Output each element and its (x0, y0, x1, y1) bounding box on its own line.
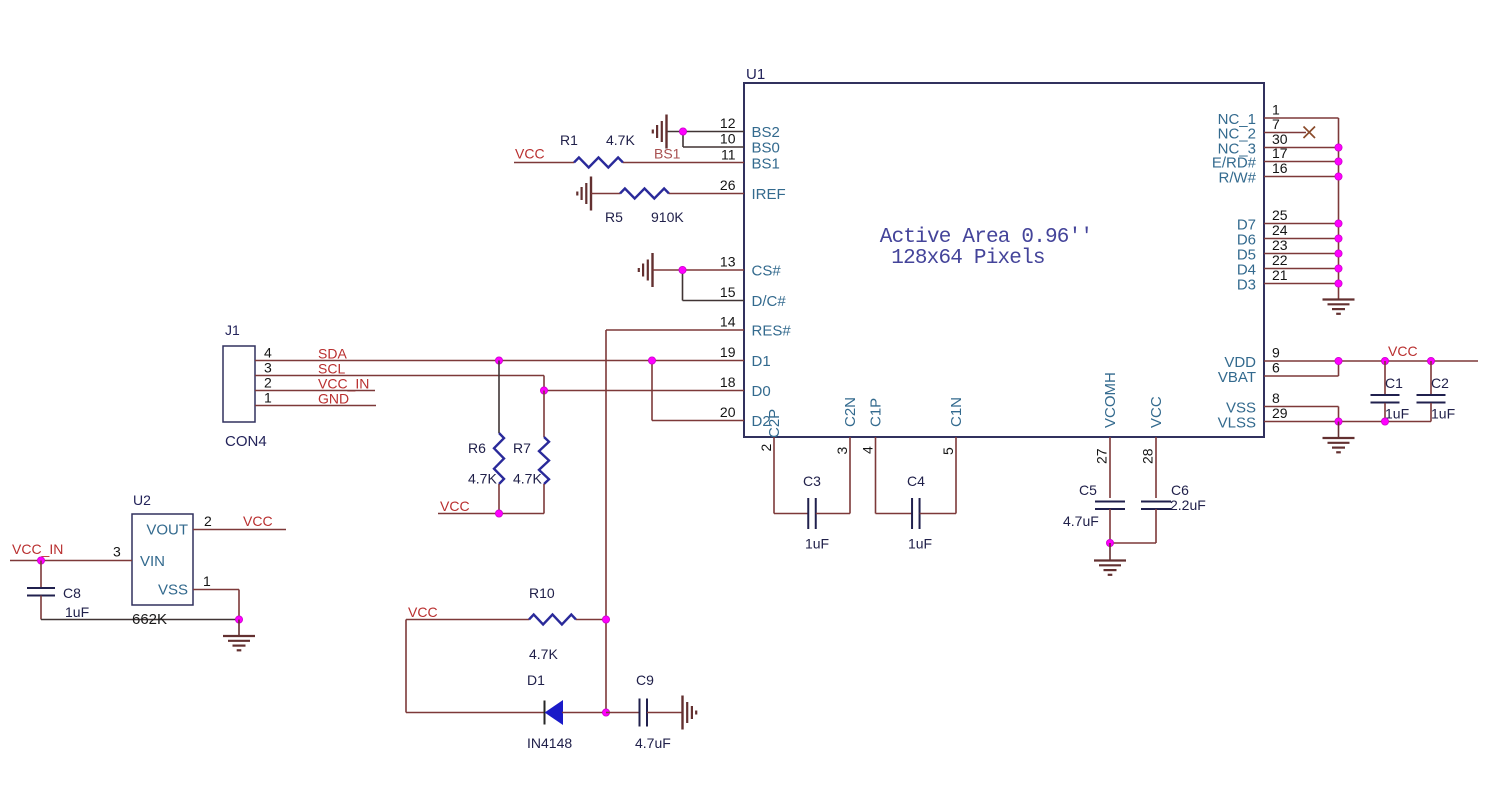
capacitor C4 (911, 498, 913, 529)
wire U2 VSS pin 1 (193, 589, 239, 591)
node junction VDD/VBAT (1335, 357, 1342, 364)
wire ground to R5 (591, 193, 620, 195)
wire VCOMH pin 27 drop (1109, 437, 1111, 498)
svg-text:BS0: BS0 (752, 140, 780, 157)
capacitor C1 (1371, 394, 1400, 396)
svg-text:VCOMH: VCOMH (1102, 372, 1119, 428)
wire VCC to R10 (406, 619, 529, 621)
wire SDA pin4 to D1 pin 19 (255, 360, 744, 362)
wire VCC pin 28 drop (1155, 437, 1157, 498)
svg-text:4.7K: 4.7K (606, 132, 635, 148)
svg-text:VCC: VCC (243, 513, 273, 529)
svg-text:VCC_IN: VCC_IN (318, 376, 369, 392)
capacitor C8 (27, 587, 55, 589)
svg-text:128x64 Pixels: 128x64 Pixels (891, 247, 1044, 270)
capacitor C2 (1417, 394, 1446, 396)
wire GND stub pin1 (255, 405, 376, 407)
wire C5 ground stem (1109, 543, 1111, 560)
svg-text:BS2: BS2 (752, 124, 780, 141)
svg-text:11: 11 (721, 147, 736, 163)
svg-text:4.7K: 4.7K (529, 646, 558, 662)
wire C6 to C5 junction (1110, 542, 1156, 544)
svg-text:910K: 910K (651, 209, 684, 225)
wire C2P to C3 (774, 513, 808, 515)
svg-text:24: 24 (1272, 222, 1288, 238)
node junction D6/bus (1335, 235, 1342, 242)
svg-text:VIN: VIN (140, 553, 165, 570)
svg-text:3: 3 (113, 544, 121, 560)
svg-text:R7: R7 (513, 440, 531, 456)
wire VCC_IN stub pin2 (255, 390, 375, 392)
svg-text:C2: C2 (1431, 375, 1449, 391)
capacitor C5 (1095, 500, 1125, 502)
node junction VDD/C2 (1427, 357, 1434, 364)
svg-text:CS#: CS# (752, 263, 782, 280)
svg-text:4.7uF: 4.7uF (635, 735, 671, 751)
svg-text:15: 15 (720, 284, 736, 300)
svg-text:1uF: 1uF (805, 536, 829, 552)
svg-text:R/W#: R/W# (1219, 170, 1257, 187)
wire R/W# pin 16 (1264, 176, 1339, 178)
diode D1 triangle (546, 701, 563, 724)
svg-text:VSS: VSS (158, 582, 188, 599)
svg-text:25: 25 (1272, 207, 1288, 223)
wire D7 pin 25 (1264, 223, 1339, 225)
svg-text:IN4148: IN4148 (527, 735, 572, 751)
svg-text:C5: C5 (1079, 482, 1097, 498)
svg-text:D1: D1 (752, 353, 771, 370)
wire diode to RES# junction (562, 712, 606, 714)
svg-text:4.7K: 4.7K (513, 471, 542, 487)
svg-text:28: 28 (1140, 448, 1156, 464)
wire R1 to BS1 pin 11 (623, 162, 744, 164)
svg-text:13: 13 (720, 254, 736, 270)
svg-text:26: 26 (720, 177, 736, 193)
wire NC_1 pin 1 (1264, 117, 1339, 119)
svg-text:4: 4 (264, 345, 272, 361)
IC U1 OLED driver box (744, 83, 1264, 437)
node junction D4/bus (1335, 265, 1342, 272)
node junction D7/bus (1335, 220, 1342, 227)
resistor R7 (539, 437, 549, 484)
svg-text:BS1: BS1 (654, 146, 681, 162)
svg-text:D0: D0 (752, 383, 771, 400)
wire BS0 pin 10 (683, 146, 744, 148)
node junction VLSS/C1 (1381, 418, 1388, 425)
svg-text:VBAT: VBAT (1218, 369, 1256, 386)
wire E/RD# pin 17 (1264, 161, 1339, 163)
svg-text:5: 5 (940, 447, 956, 455)
wire D/C# branch vertical (682, 270, 684, 301)
capacitor C3 (807, 498, 809, 529)
resistor R6 (494, 433, 504, 484)
svg-text:22: 22 (1272, 252, 1288, 268)
wire D2 branch to pin 20 (652, 420, 744, 422)
svg-text:1uF: 1uF (65, 604, 89, 620)
ground at NC bus (1323, 298, 1355, 300)
resistor R1 (574, 158, 623, 168)
svg-text:U2: U2 (133, 492, 151, 508)
node junction U2 VSS/C8 (235, 616, 242, 623)
svg-text:VCC: VCC (408, 604, 438, 620)
capacitor C2 top lead (1430, 361, 1432, 395)
wire VSS pin 8 (1264, 406, 1339, 408)
svg-text:C6: C6 (1171, 482, 1189, 498)
svg-text:18: 18 (720, 374, 736, 390)
svg-text:21: 21 (1272, 267, 1288, 283)
wire R10 to RES# junction (576, 619, 606, 621)
svg-text:3: 3 (264, 360, 272, 376)
svg-text:4.7K: 4.7K (468, 471, 497, 487)
svg-text:C3: C3 (803, 473, 821, 489)
wire C8 to U2 ground rail (41, 619, 239, 621)
wire NC_3 pin 30 (1264, 147, 1339, 149)
node junction VSS/VLSS (1335, 418, 1342, 425)
svg-text:C2P: C2P (766, 409, 783, 438)
wire R7 bottom (543, 484, 545, 514)
wire C1P pin 4 drop (875, 437, 877, 514)
svg-text:VCC: VCC (1388, 343, 1418, 359)
svg-text:C2N: C2N (842, 397, 859, 427)
wire ground stub to BS2 junction (667, 131, 684, 133)
diode D1 cathode bar (544, 701, 546, 725)
svg-text:R6: R6 (468, 440, 486, 456)
wire C4 to C1N (920, 513, 956, 515)
wire to C9 (606, 712, 640, 714)
wire RES# vertical (605, 330, 607, 713)
wire R6 bottom (498, 484, 500, 514)
capacitor C8 top lead (40, 561, 42, 589)
wire C5 to ground junction (1109, 509, 1111, 543)
wire C9 to ground (647, 712, 683, 714)
wire C1N pin 5 drop (955, 437, 957, 514)
wire SCL drop to D0 net (543, 376, 545, 391)
wire D/C# pin 15 (683, 300, 745, 302)
svg-text:4.7uF: 4.7uF (1063, 513, 1099, 529)
svg-text:C1: C1 (1385, 375, 1403, 391)
wire BS0 branch vertical (682, 132, 684, 148)
capacitor C9 (639, 699, 641, 727)
wire RES# pin 14 (606, 329, 744, 331)
wire C2N pin 3 drop (849, 437, 851, 514)
ground at C5/C6 (1094, 559, 1126, 561)
node junction VDD/C1 (1381, 357, 1388, 364)
ground at R5 (590, 177, 592, 211)
wire C1P to C4 (876, 513, 913, 515)
ground at U2 (223, 635, 255, 637)
wire ground to CS# junction (653, 269, 683, 271)
svg-text:C9: C9 (636, 672, 654, 688)
node junction BS2/BS0 (679, 128, 686, 135)
svg-text:1uF: 1uF (1385, 406, 1409, 422)
svg-text:16: 16 (1272, 160, 1288, 176)
svg-text:1uF: 1uF (908, 536, 932, 552)
node junction VCC/R6 (495, 510, 502, 517)
capacitor C6 (1141, 500, 1171, 502)
svg-text:10: 10 (720, 131, 736, 147)
svg-text:2: 2 (264, 375, 272, 391)
svg-text:9: 9 (1272, 345, 1280, 361)
node junction SDA/D2 (648, 357, 655, 364)
wire R7 top (543, 391, 545, 438)
capacitor C1 bottom lead (1384, 403, 1386, 422)
wire C6 drop to rail (1155, 509, 1157, 543)
wire D2 branch vertical (651, 361, 653, 421)
voltage regulator U2 box (132, 514, 193, 605)
capacitor C1 top lead (1384, 361, 1386, 395)
wire SCL pin3 horizontal (255, 375, 544, 377)
svg-text:6: 6 (1272, 360, 1280, 376)
wire VDD pin 9 to VCC rail (1264, 360, 1478, 362)
svg-text:R1: R1 (560, 132, 578, 148)
wire VCC drop left of D1 (405, 620, 407, 713)
node junction D5/bus (1335, 250, 1342, 257)
node junction E/RD#/bus (1335, 158, 1342, 165)
svg-text:C4: C4 (907, 473, 925, 489)
svg-text:J1: J1 (225, 322, 240, 338)
svg-text:VCC: VCC (1148, 396, 1165, 428)
wire VSS down to VLSS (1338, 407, 1340, 422)
wire D3 pin 21 (1264, 283, 1339, 285)
svg-text:IREF: IREF (752, 186, 786, 203)
wire VBAT pin 6 (1264, 375, 1339, 377)
capacitor C2 bottom lead (1430, 403, 1432, 422)
svg-text:2: 2 (204, 513, 212, 529)
wire VCC to R1 (514, 162, 574, 164)
node junction D3/bus (1335, 280, 1342, 287)
wire U2 VOUT pin 2 (193, 529, 286, 531)
wire D6 pin 24 (1264, 238, 1339, 240)
svg-text:3: 3 (834, 447, 850, 455)
svg-text:VLSS: VLSS (1218, 415, 1256, 432)
svg-text:VCC: VCC (515, 146, 545, 162)
wire NC_2 pin 7 (1264, 132, 1306, 134)
node junction SDA/R6 (495, 357, 502, 364)
node junction CS#/D-C# (679, 266, 686, 273)
wire BS2 pin 12 (683, 131, 744, 133)
svg-text:GND: GND (318, 391, 349, 407)
svg-text:D/C#: D/C# (752, 293, 787, 310)
svg-text:VCC_IN: VCC_IN (12, 541, 63, 557)
svg-text:SDA: SDA (318, 346, 347, 362)
svg-text:C1N: C1N (948, 397, 965, 427)
wire VCC rail pullups (438, 513, 544, 515)
wire D5 pin 23 (1264, 253, 1339, 255)
svg-text:27: 27 (1094, 448, 1110, 464)
svg-text:Active Area 0.96'': Active Area 0.96'' (880, 226, 1092, 249)
svg-text:D1: D1 (527, 672, 545, 688)
svg-text:CON4: CON4 (225, 433, 267, 450)
svg-text:1uF: 1uF (1431, 406, 1455, 422)
svg-text:20: 20 (720, 404, 736, 420)
node junction R/W#/bus (1335, 173, 1342, 180)
connector J1 box (223, 346, 255, 422)
wire R5 to IREF pin 26 (669, 193, 744, 195)
node junction SCL/D0/R7 (540, 387, 547, 394)
svg-text:2: 2 (758, 444, 774, 452)
svg-text:1: 1 (264, 390, 272, 406)
svg-text:4: 4 (860, 446, 876, 454)
ground at C9 (681, 696, 683, 730)
svg-text:662K: 662K (132, 611, 167, 628)
svg-text:19: 19 (720, 344, 736, 360)
no-connect X on NC_2 (1304, 127, 1316, 139)
wire R6 top (498, 361, 500, 434)
node junction C5/C6 (1106, 539, 1113, 546)
svg-text:RES#: RES# (752, 323, 792, 340)
wire to diode anode (406, 712, 545, 714)
wire VLSS pin 29 rail (1264, 421, 1431, 423)
node junction D1/C9/RES# (602, 709, 609, 716)
resistor R10 (529, 615, 576, 625)
capacitor C8 bottom lead (40, 596, 42, 620)
svg-text:SCL: SCL (318, 361, 345, 377)
wire CS# pin 13 (683, 269, 745, 271)
svg-text:C1P: C1P (868, 398, 885, 427)
ground at CS# (651, 253, 653, 287)
svg-text:2.2uF: 2.2uF (1170, 497, 1206, 513)
svg-text:BS1: BS1 (752, 156, 780, 173)
svg-text:29: 29 (1272, 405, 1288, 421)
wire NC bus vertical (1338, 118, 1340, 299)
wire D0 net to pin 18 (544, 390, 744, 392)
svg-text:VCC: VCC (440, 498, 470, 514)
svg-text:R10: R10 (529, 585, 555, 601)
svg-text:R5: R5 (605, 209, 623, 225)
node junction NC_3/bus (1335, 144, 1342, 151)
resistor R5 (620, 189, 669, 199)
svg-text:D3: D3 (1237, 277, 1256, 294)
wire VCC_IN to U2 VIN pin 3 (10, 560, 132, 562)
wire VBAT up to VDD (1338, 361, 1340, 376)
wire C2P pin 2 drop (773, 437, 775, 514)
svg-text:C8: C8 (63, 585, 81, 601)
svg-text:VOUT: VOUT (146, 522, 188, 539)
wire U2 ground stem (238, 620, 240, 637)
ground at BS2/BS0 (665, 115, 667, 149)
node junction R10/RES# (602, 616, 609, 623)
wire VSS ground stem (1338, 422, 1340, 438)
svg-text:8: 8 (1272, 390, 1280, 406)
ground at VSS/VLSS (1323, 437, 1355, 439)
svg-text:1: 1 (203, 573, 211, 589)
wire U2 VSS drop (238, 590, 240, 620)
svg-text:U1: U1 (746, 66, 765, 83)
svg-text:14: 14 (720, 314, 736, 330)
node junction VCC_IN/C8 (37, 557, 44, 564)
wire C3 to C2N (816, 513, 850, 515)
svg-text:12: 12 (720, 115, 736, 131)
svg-text:23: 23 (1272, 237, 1288, 253)
wire D4 pin 22 (1264, 268, 1339, 270)
